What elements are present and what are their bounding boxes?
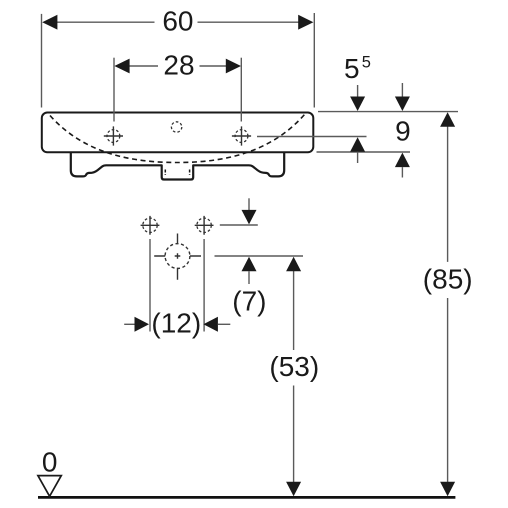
dimension 60: right arrow (298, 15, 313, 30)
svg-text:(7): (7) (232, 286, 266, 317)
dimension 5.5: upper arrow stem (357, 85, 359, 98)
dimension 53: line upper part (293, 270, 295, 350)
dimension 7: lower arrow (up) (242, 257, 257, 272)
svg-text:28: 28 (163, 50, 194, 81)
dimension 9: upper arrow stem (401, 83, 403, 97)
tap hole right: crosshair (232, 126, 251, 145)
dimension 7: upper arrow stem (248, 198, 250, 211)
svg-text:5: 5 (362, 54, 371, 72)
siphon level reference line (215, 255, 304, 257)
floor line (38, 496, 455, 499)
dimension 85: line upper part (447, 125, 449, 262)
dimension 28: left arrow (114, 59, 129, 74)
mounting hole right: crosshair (195, 216, 214, 235)
drain box dashed tick right (189, 170, 191, 176)
dimension 53: top arrow (up) (286, 257, 301, 272)
dimension 60: left extension line (41, 14, 43, 108)
dimension 60: right extension line (313, 13, 315, 108)
dimension 9: lower arrow stem (401, 167, 403, 177)
dimension 9: lower arrow (up) (395, 153, 410, 168)
dimension 12: left extension line (149, 239, 151, 332)
dimension 53: line lower part (293, 386, 295, 484)
siphon centerline horizontal (154, 255, 201, 257)
dimension 12: left arrow stem (124, 323, 135, 325)
dimension 5.5: upper arrow (down) (350, 97, 365, 112)
dimension 12: right arrow stem (218, 323, 230, 325)
rim top reference line (318, 111, 458, 113)
drain box dashed tick left (164, 170, 166, 176)
dimension 60: line (56, 21, 299, 23)
mounting hole left: crosshair (141, 216, 160, 235)
basin bottom reference line (317, 151, 411, 153)
dimension 28: right arrow (226, 59, 241, 74)
dimension 85: bottom arrow (down) (440, 482, 455, 497)
svg-text:5: 5 (344, 53, 360, 84)
dimension 53: bottom arrow (down) (286, 482, 301, 497)
dimension 85: line lower part (447, 298, 449, 483)
dimension 9: upper arrow (down) (395, 97, 410, 112)
dimension 5.5: lower arrow stem (357, 152, 359, 163)
svg-text:0: 0 (42, 446, 58, 477)
tap hole right: dashed circle (235, 130, 248, 143)
dimension 12: left arrow (right-pointing) (135, 317, 150, 332)
svg-text:60: 60 (162, 5, 193, 36)
mounting hole left: dashed circle (143, 218, 157, 232)
washbasin underside profile with legs and drain box (71, 152, 284, 180)
svg-text:(12): (12) (151, 307, 201, 338)
svg-text:(53): (53) (269, 351, 319, 382)
siphon centerline vertical (177, 234, 179, 280)
dimension 60: left arrow (42, 15, 57, 30)
tap hole level reference line (257, 136, 367, 138)
svg-text:(85): (85) (423, 264, 473, 295)
dimension 5.5: lower arrow (up) (350, 137, 365, 152)
dimension 7: lower arrow stem (248, 271, 250, 284)
dimension 7: upper arrow (down) (242, 210, 257, 225)
dimension 12: right arrow (left-pointing) (203, 317, 218, 332)
tap hole left: crosshair (104, 126, 123, 145)
tap hole left: dashed circle (107, 130, 120, 143)
dimension 12: right extension line (203, 239, 205, 332)
mounting hole level line (220, 224, 258, 226)
datum triangle symbol (38, 476, 61, 497)
hidden bowl dashed curve (50, 115, 305, 163)
siphon dashed circle (165, 244, 190, 269)
dimension 28: line (129, 65, 228, 67)
washbasin body outline (42, 113, 314, 153)
middle knockout dashed circle (171, 122, 181, 132)
mounting hole right: dashed circle (197, 218, 211, 232)
dimension 28: right extension line (240, 58, 242, 122)
svg-text:9: 9 (395, 116, 411, 147)
dimension 85: top arrow (up) (440, 112, 455, 127)
dimension 28: left extension line (113, 58, 115, 122)
